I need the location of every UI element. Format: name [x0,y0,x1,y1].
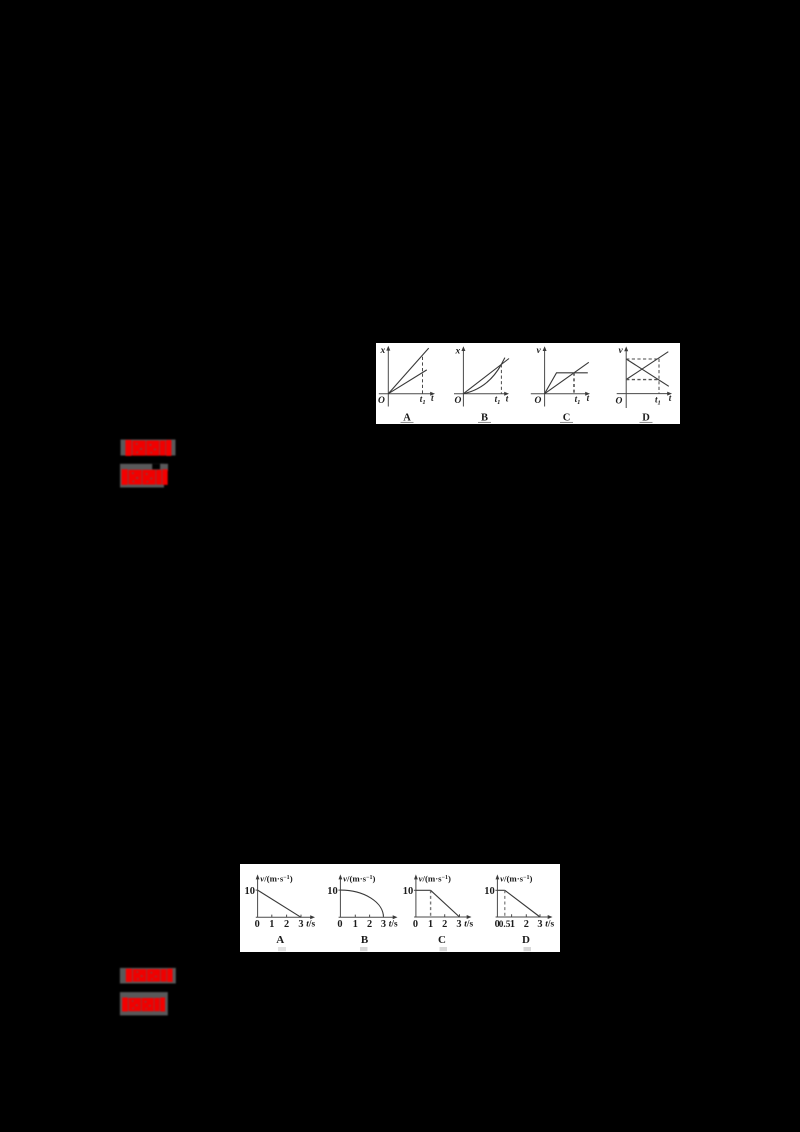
graph C: dashed vertical at t1 [573,373,575,394]
graph D: dashed vertical at t1 [658,359,660,394]
svg-text:10: 10 [327,886,338,897]
svg-text:2: 2 [367,919,372,930]
graph 2C: flat segment at v=10 [416,889,431,891]
graph D: v-axis arrowhead [624,346,628,351]
black notch in highlight [152,464,160,470]
gray highlight behind 答案 [121,440,176,456]
gray highlight behind 解析 [120,992,168,1015]
blob texture holes [136,971,157,979]
blob texture holes [136,443,156,453]
svg-text:t/s: t/s [545,920,554,930]
svg-text:t1: t1 [420,394,426,406]
svg-text:10: 10 [403,886,414,897]
graph D: ascending v-t line [626,352,668,380]
graph 2D: t axis [496,916,551,918]
red right bracket [167,969,172,982]
svg-text:v/(m·s−1): v/(m·s−1) [419,874,451,884]
svg-text:t: t [431,393,434,403]
svg-text:O: O [535,396,542,406]
graph 2D: dashed vertical at t=0.5 [504,890,506,917]
graph 2D: x ticks 1 2 3 [512,914,540,917]
graph 2D: faint mark below D [524,947,532,951]
graph B: x axis (vertical) [462,348,464,406]
svg-text:0: 0 [337,919,342,930]
red character blob 2 [142,998,154,1011]
red character blob 1 [133,441,146,456]
svg-text:A: A [276,934,284,946]
red marker block 4: highlighted 【解析】 [116,988,182,1020]
blob texture holes [132,1000,151,1009]
graph 2A: t axis [256,916,313,918]
graph B: x-axis arrowhead [461,346,465,351]
svg-text:t/s: t/s [306,920,315,930]
red character blob 1 [129,470,142,485]
graph 2D: decreasing segment [505,890,540,917]
graph 2A: v axis [257,877,259,918]
svg-text:D: D [522,934,530,946]
graph A: steeper x-t line [388,348,428,394]
graph 2A: straight decreasing v-t line [258,890,301,917]
graph C: t axis (horizontal) [531,393,588,395]
graph B: dashed vertical at t1 [500,364,502,393]
red tint unifying gaps [128,998,161,1011]
svg-text:v/(m·s−1): v/(m·s−1) [260,874,292,884]
graph 2A: v-axis arrowhead [256,874,260,879]
graph 2C: x ticks 2 3 [445,914,460,917]
graph 2D: flat segment at v=10 [497,889,504,891]
red left bracket [122,469,128,485]
gray highlight upper-right piece [160,464,168,471]
svg-text:v/(m·s−1): v/(m·s−1) [500,874,532,884]
graph B: t axis (horizontal) [454,393,507,395]
red character blob 1 [129,998,141,1011]
svg-text:A: A [403,413,411,424]
svg-text:10: 10 [484,886,495,897]
graph 2B: x ticks 1 2 3 [355,915,383,918]
svg-text:O: O [378,396,385,406]
graph C: straight v-t line [545,362,589,393]
red marker block 2: highlighted 【解析】 [116,460,182,492]
graph C: v-axis arrowhead [543,346,547,351]
red right bracket [166,440,171,456]
svg-text:B: B [481,413,488,424]
graph 2C: t-axis arrowhead [467,915,472,919]
red right bracket [162,469,167,485]
red character blob 3 (partial) [154,998,159,1011]
graph A: shallower x-t line [388,370,427,394]
red right bracket [160,998,165,1012]
red character blob 3 (partial) [161,969,166,982]
svg-text:O: O [616,397,623,407]
svg-text:3: 3 [381,919,386,930]
svg-text:D: D [642,413,650,424]
svg-text:2: 2 [284,919,289,930]
svg-text:t: t [587,393,590,403]
svg-text:O: O [455,396,462,406]
svg-text:v/(m·s−1): v/(m·s−1) [343,874,375,884]
graph 2B: t-axis arrowhead [393,915,398,919]
graph A: t-axis arrowhead [430,392,435,396]
graph 2A: x ticks 1 2 3 [272,915,301,918]
graph 2C: t axis [414,916,469,918]
graph 2B: faint mark below B [360,947,368,951]
graph 2C: v-axis arrowhead [414,874,418,879]
svg-text:v: v [537,346,542,356]
white panel 1 (x-t / v-t graph options A-D) [376,343,680,424]
svg-text:C: C [563,413,571,424]
graph C: v axis (vertical) [544,348,546,406]
svg-text:t: t [506,393,509,403]
svg-text:2: 2 [442,919,447,930]
svg-text:1: 1 [269,919,274,930]
graph 2D: tick at v=10 [495,889,497,891]
gray highlight behind 答案 [120,968,176,984]
graph 2C: dashed vertical at t=1 [430,890,432,917]
graph 2A: faint mark below A [278,947,286,951]
svg-text:t/s: t/s [464,920,473,930]
red character blob 2 [142,470,155,485]
svg-text:x: x [380,346,386,356]
graph 2C: tick at v=10 [414,889,416,891]
graph 2A: t-axis arrowhead [310,915,315,919]
graph 2C: faint mark below C [440,947,448,951]
red character blob 3 (partial) [160,441,165,456]
graph 2D: v axis [496,877,498,917]
graph 2D: v-axis arrowhead [496,874,500,879]
gray highlight behind 解析 [120,464,164,488]
svg-text:0: 0 [413,919,418,930]
graph C: underline under C [560,421,573,423]
svg-text:0: 0 [255,919,260,930]
svg-text:1: 1 [428,919,433,930]
graph B: t-axis arrowhead [504,392,509,396]
graph C: rise-then-flat v-t line [545,373,588,394]
svg-text:v: v [619,346,624,356]
red tint unifying gaps [132,969,167,981]
graph A: x-axis arrowhead [386,346,390,351]
svg-text:t1: t1 [495,394,501,406]
graph 2C: decreasing segment [431,890,460,917]
svg-text:C: C [438,934,446,946]
graph A: underline under A [401,421,414,423]
graph 2A: tick at v=10 [256,889,258,891]
graph D: descending v-t line [626,359,669,386]
svg-text:t1: t1 [575,394,581,406]
red marker block 1: highlighted 【答案】 [116,435,182,461]
graph D: underline under D [640,421,653,423]
graph A: dashed vertical at t1 [422,357,424,394]
red tint unifying gaps [132,441,167,456]
graph 2C: v axis [415,877,417,917]
graph D: dashed horizontal top [626,358,659,360]
graph C: t-axis arrowhead [585,392,590,396]
svg-text:3: 3 [537,919,542,930]
graph D: t-axis arrowhead [667,392,672,396]
graph A: x axis (vertical) [387,348,389,407]
graph B: curved x-t line [463,358,505,394]
graph 2B: v axis [339,877,341,918]
graph 2D: t-axis arrowhead [548,915,553,919]
svg-text:1: 1 [510,919,515,930]
blob texture holes [132,472,152,482]
svg-text:t/s: t/s [389,920,398,930]
graph B: straight x-t line [463,359,509,394]
red marker block 3: highlighted 【答案】 [116,964,182,990]
red character blob 2 [147,969,160,982]
graph 2B: concave decreasing v-t curve [340,890,383,917]
red left bracket [122,998,128,1012]
svg-text:B: B [361,934,369,946]
red character blob 3 (partial) [156,470,161,485]
graph 2B: t axis [339,916,396,918]
red character blob 1 [133,969,146,982]
graph B: underline under B [478,421,491,423]
red character blob 2 [146,441,159,456]
graph 2B: tick at v=10 [338,889,340,891]
graph D: dashed horizontal bottom [626,379,659,381]
svg-text:1: 1 [353,919,358,930]
svg-text:3: 3 [298,919,303,930]
svg-text:t: t [669,393,672,403]
svg-text:2: 2 [524,919,529,930]
svg-text:10: 10 [245,886,256,897]
red left bracket [125,440,131,456]
graph D: t axis (horizontal) [617,393,670,395]
svg-text:3: 3 [456,919,461,930]
red left bracket [126,969,132,982]
graph 2B: v-axis arrowhead [339,874,343,879]
white panel 2 (v-t graph options A-D) [240,864,560,952]
svg-text:x: x [455,346,461,356]
svg-text:t1: t1 [655,394,661,406]
graph A: t axis (horizontal) [379,393,433,395]
graph D: v axis (vertical) [625,348,627,408]
red tint unifying gaps [128,470,163,484]
